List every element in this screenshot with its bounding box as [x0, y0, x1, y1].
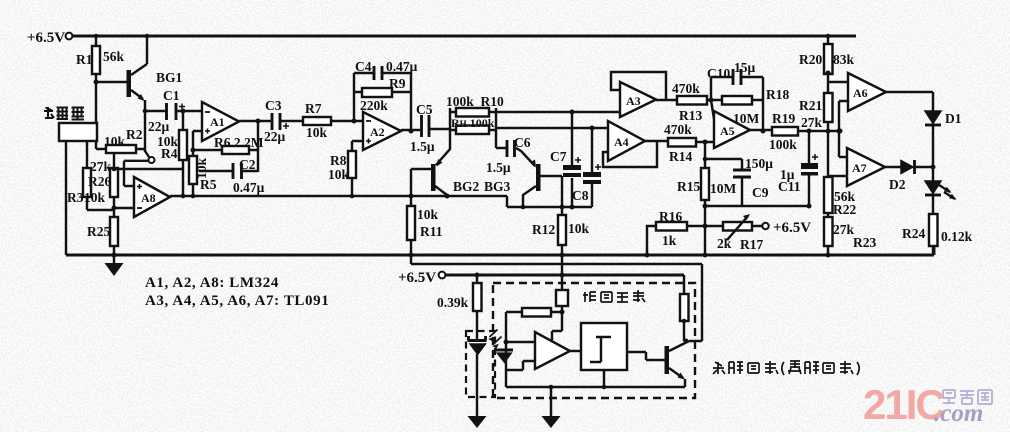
op-amp A2: [363, 112, 401, 150]
svg-text:R12: R12: [532, 222, 555, 237]
resistor R9: [354, 73, 411, 131]
svg-text:15μ: 15μ: [734, 60, 756, 75]
svg-text:R22: R22: [833, 202, 856, 217]
op-amp A5: [711, 100, 760, 148]
resistor R3: [67, 141, 114, 210]
resistor R16: [645, 209, 708, 258]
reference resistor: [504, 308, 563, 387]
svg-text:R8: R8: [330, 153, 347, 168]
resistor R7: [303, 101, 363, 140]
svg-text:C7: C7: [550, 149, 567, 164]
op-amp A3 with unity feedback loop: [611, 72, 666, 117]
svg-text:R1: R1: [76, 52, 93, 67]
sensor box: [59, 123, 97, 255]
resistor R18: [722, 77, 789, 134]
resistor R14: [645, 122, 714, 164]
svg-text:27k: 27k: [90, 159, 112, 174]
label 光耦电路（集成电路）: [713, 361, 859, 375]
resistor R21: [799, 93, 833, 177]
watermark 21IC: [863, 381, 992, 428]
svg-text:56k: 56k: [103, 49, 125, 64]
svg-text:27k: 27k: [801, 115, 823, 130]
svg-text:150μ: 150μ: [745, 156, 773, 171]
IC type notes: [145, 275, 329, 309]
resistor R13: [656, 81, 722, 123]
svg-text:A2: A2: [370, 125, 385, 139]
svg-text:100k R10: 100k R10: [446, 94, 504, 109]
svg-text:83k: 83k: [833, 52, 855, 67]
svg-text:R9: R9: [389, 76, 406, 91]
svg-text:27k: 27k: [833, 222, 855, 237]
label 稳压电源: [583, 290, 645, 302]
svg-text:.com: .com: [934, 400, 983, 427]
op-amp A7: [828, 148, 885, 186]
svg-text:R16: R16: [659, 209, 682, 224]
svg-text:10k: 10k: [306, 125, 328, 140]
diode D1: [886, 92, 962, 167]
resistor R4: [157, 109, 187, 197]
resistor R11: [407, 169, 443, 255]
diode D2: [885, 160, 936, 192]
resistor R25: [87, 217, 118, 255]
wire C9/C11 common: [705, 205, 809, 207]
svg-text:R26: R26: [88, 174, 111, 189]
svg-text:R11: R11: [420, 224, 443, 239]
resistor R6 feedback: [193, 119, 264, 173]
resistor R8: [328, 141, 363, 196]
svg-text:22μ: 22μ: [148, 119, 170, 134]
svg-text:R15: R15: [677, 179, 700, 194]
resistor 0.39k: [437, 275, 482, 340]
node A2 inverting input: [352, 119, 357, 124]
svg-text:0.47μ: 0.47μ: [233, 180, 265, 195]
svg-text:C9: C9: [752, 185, 769, 200]
svg-text:100k: 100k: [769, 137, 797, 152]
svg-text:10M: 10M: [733, 111, 760, 126]
svg-text:0.12k: 0.12k: [941, 229, 973, 244]
svg-text:R6 2.2M: R6 2.2M: [214, 135, 264, 150]
wire BG1 emitter column: [144, 100, 146, 152]
svg-text:1k: 1k: [662, 233, 677, 248]
svg-text:C10: C10: [707, 66, 730, 81]
svg-text:R21: R21: [799, 98, 822, 113]
svg-text:BG3: BG3: [484, 179, 511, 194]
svg-text:2k: 2k: [717, 236, 732, 251]
regulated supply dashed box: [493, 283, 695, 398]
svg-text:220k: 220k: [360, 98, 388, 113]
svg-text:R2: R2: [126, 127, 143, 142]
svg-text:BG1: BG1: [156, 70, 183, 85]
svg-text:R19: R19: [772, 111, 795, 126]
capacitor C6: [486, 135, 531, 175]
svg-text:22μ: 22μ: [264, 129, 286, 144]
ground (supply): [542, 416, 561, 428]
top +6.5V supply rail: [27, 30, 856, 46]
svg-text:A4: A4: [614, 135, 629, 149]
potentiometer R17: [705, 214, 811, 252]
capacitor C5: [401, 102, 450, 154]
svg-text:C8: C8: [572, 188, 589, 203]
resistors R10 / RH parallel pair: [446, 94, 504, 148]
svg-text:A1, A2, A8: LM324: A1, A2, A8: LM324: [145, 275, 279, 291]
svg-text:R4: R4: [161, 146, 178, 161]
svg-text:A6: A6: [853, 86, 868, 100]
svg-text:10k: 10k: [417, 207, 439, 222]
svg-text:A5: A5: [720, 124, 735, 138]
capacitor C11: [778, 131, 818, 209]
output transistor: [627, 339, 689, 388]
svg-text:10k: 10k: [568, 221, 590, 236]
sensor label 传感器: [44, 107, 84, 120]
capacitor C7: [550, 110, 581, 210]
wire to A4 input: [496, 127, 608, 129]
resistor R5: [189, 131, 217, 196]
resistor R1: [76, 34, 125, 82]
svg-text:C5: C5: [416, 102, 433, 117]
+6.5V terminal feeding optocoupler supply: [398, 270, 684, 286]
series pass resistor: [680, 275, 689, 341]
resistor R20: [799, 34, 855, 93]
svg-text:470k: 470k: [672, 81, 700, 96]
svg-text:+6.5V: +6.5V: [773, 220, 811, 236]
capacitor C4: [354, 59, 418, 121]
svg-text:10k: 10k: [84, 190, 106, 205]
svg-text:C11: C11: [778, 179, 801, 194]
svg-text:R17: R17: [740, 237, 763, 252]
svg-text:1.5μ: 1.5μ: [486, 160, 511, 175]
capacitor C3: [239, 98, 303, 144]
capacitor C1: [145, 88, 202, 134]
svg-text:+6.5V: +6.5V: [398, 270, 436, 286]
op-amp A6: [828, 73, 886, 157]
svg-text:R24: R24: [902, 226, 925, 241]
svg-text:C3: C3: [265, 98, 282, 113]
transistor BG1: [96, 34, 183, 101]
resistor R12: [532, 205, 590, 256]
A8 output long wire: [170, 194, 592, 210]
svg-text:A3: A3: [626, 94, 641, 108]
input terminal node: [124, 151, 155, 186]
svg-text:R13: R13: [679, 108, 702, 123]
svg-text:R3: R3: [67, 190, 84, 205]
resistor R24: [902, 214, 973, 255]
resistor R22: [824, 177, 856, 217]
capacitor C9: [703, 156, 774, 206]
svg-text:10M: 10M: [710, 181, 737, 196]
capacitor C10: [707, 60, 763, 100]
svg-text:C4: C4: [355, 59, 372, 74]
svg-text:C2: C2: [239, 157, 256, 172]
hysteresis block: [581, 323, 627, 370]
capacitor C8: [572, 126, 601, 208]
LED: [925, 167, 957, 214]
svg-text:R25: R25: [87, 224, 110, 239]
svg-text:D2: D2: [889, 177, 906, 192]
supply input resistor: [552, 255, 568, 340]
node at R1 bottom: [94, 80, 99, 85]
wire to A3 input: [496, 111, 620, 113]
svg-text:BG2: BG2: [453, 179, 480, 194]
wire R1 node down to R2: [95, 82, 97, 149]
svg-text:RH 100k: RH 100k: [451, 116, 495, 130]
svg-text:R18: R18: [766, 87, 789, 102]
svg-text:R23: R23: [853, 235, 876, 250]
svg-text:R20: R20: [799, 52, 822, 67]
transistor BG2: [411, 130, 480, 196]
svg-text:D1: D1: [945, 111, 962, 126]
svg-text:A8: A8: [141, 191, 156, 205]
svg-text:C1: C1: [163, 88, 180, 103]
resistor R19: [750, 111, 843, 152]
svg-text:10k: 10k: [104, 134, 126, 149]
svg-text:10k: 10k: [328, 167, 350, 182]
wire R26 top tap to R4 column: [114, 168, 183, 170]
transistor BG3: [484, 148, 562, 215]
op-amp A1: [202, 102, 239, 141]
comparator op-amp: [506, 332, 581, 370]
photodiode of optocoupler: [496, 350, 514, 363]
svg-text:A7: A7: [852, 161, 867, 175]
resistor R15: [677, 142, 737, 226]
resistor R26: [88, 153, 134, 217]
svg-text:470k: 470k: [664, 122, 692, 137]
ground (LED branch): [468, 416, 487, 428]
bottom wire inside box: [506, 370, 685, 416]
ground: [105, 253, 124, 277]
svg-text:0.39k: 0.39k: [437, 295, 469, 310]
bottom common rail: [66, 246, 934, 258]
capacitor C2: [199, 157, 265, 195]
op-amp A4 with unity feedback loop: [603, 121, 657, 167]
svg-text:A1: A1: [210, 115, 225, 129]
svg-text:R7: R7: [305, 101, 322, 116]
resistor R2: [96, 127, 145, 153]
resistor R23: [824, 217, 876, 258]
svg-text:1.5μ: 1.5μ: [410, 139, 435, 154]
optocoupler inner dashed box: [466, 331, 495, 397]
svg-text:0.47μ: 0.47μ: [386, 59, 418, 74]
secondary supply line: [411, 255, 702, 341]
svg-text:A3, A4, A5, A6, A7: TL091: A3, A4, A5, A6, A7: TL091: [145, 293, 329, 309]
svg-text:+6.5V: +6.5V: [27, 30, 65, 46]
op-amp A8: [134, 177, 170, 217]
LED of optocoupler: [468, 330, 502, 417]
svg-text:R14: R14: [669, 149, 692, 164]
svg-text:10k: 10k: [194, 158, 209, 180]
